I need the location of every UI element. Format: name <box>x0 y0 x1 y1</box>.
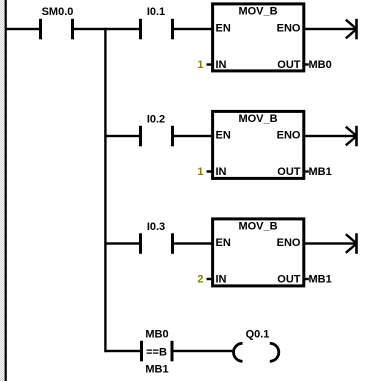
svg-text:EN: EN <box>216 22 231 34</box>
svg-text:OUT: OUT <box>277 166 301 178</box>
svg-text:ENO: ENO <box>277 22 301 34</box>
svg-text:1: 1 <box>197 166 203 178</box>
svg-text:MB0: MB0 <box>309 59 332 71</box>
svg-text:MOV_B: MOV_B <box>238 113 277 125</box>
svg-text:MOV_B: MOV_B <box>238 6 277 18</box>
svg-text:OUT: OUT <box>277 59 301 71</box>
svg-text:MB1: MB1 <box>145 364 168 376</box>
svg-text:Q0.1: Q0.1 <box>246 329 270 341</box>
svg-text:MB1: MB1 <box>309 166 332 178</box>
svg-text:OUT: OUT <box>277 273 301 285</box>
svg-text:2: 2 <box>197 273 203 285</box>
svg-text:1: 1 <box>197 59 203 71</box>
svg-text:IN: IN <box>216 166 227 178</box>
svg-text:==B: ==B <box>146 347 167 359</box>
svg-text:I0.1: I0.1 <box>147 6 165 18</box>
svg-text:ENO: ENO <box>277 237 301 249</box>
svg-text:IN: IN <box>216 59 227 71</box>
svg-text:MB1: MB1 <box>309 273 332 285</box>
svg-text:IN: IN <box>216 273 227 285</box>
svg-text:EN: EN <box>216 129 231 141</box>
svg-text:SM0.0: SM0.0 <box>42 6 74 18</box>
svg-text:MOV_B: MOV_B <box>238 221 277 233</box>
svg-text:I0.3: I0.3 <box>147 221 165 233</box>
svg-text:EN: EN <box>216 237 231 249</box>
svg-text:ENO: ENO <box>277 129 301 141</box>
svg-text:MB0: MB0 <box>145 329 168 341</box>
svg-text:I0.2: I0.2 <box>147 114 165 126</box>
